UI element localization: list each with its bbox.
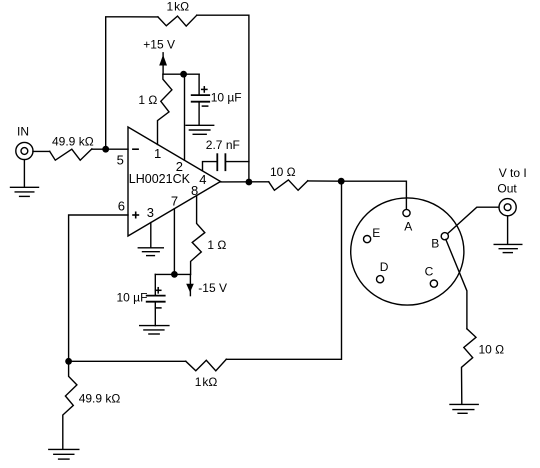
svg-text:IN: IN	[17, 124, 29, 138]
wire: pin B to output jack	[448, 207, 499, 233]
wire: IN jack to input resistor	[33, 150, 50, 152]
wire: +15V rail	[163, 73, 199, 75]
op-amp plus sign	[133, 212, 138, 217]
svg-text:Out: Out	[497, 181, 517, 195]
wire: 10 Ohm to junction	[308, 180, 341, 182]
capacitor 10 uF (+15V bypass)	[192, 74, 210, 125]
svg-text:2: 2	[176, 159, 183, 174]
svg-text:1 kΩ: 1 kΩ	[167, 0, 190, 13]
svg-text:49.9 kΩ: 49.9 kΩ	[52, 135, 94, 149]
ground (divider)	[49, 449, 79, 459]
ground (output jack)	[494, 244, 522, 252]
+15 V supply arrow	[159, 53, 167, 74]
-15 V supply arrow	[186, 274, 194, 295]
svg-text:49.9 kΩ: 49.9 kΩ	[79, 391, 121, 405]
wire: pin 7 down to -15V node	[173, 209, 175, 275]
resistor 49.9 kOhm (input)	[50, 149, 92, 160]
wire: feedback loop left/top	[106, 17, 158, 149]
wire: pin B down to sense resistor	[446, 239, 467, 328]
svg-text:B: B	[431, 236, 439, 250]
svg-text:V to I: V to I	[499, 166, 527, 180]
wire: pin 3 to ground	[150, 223, 152, 248]
wire: junction to pin A	[341, 181, 406, 209]
op-amp minus sign	[133, 148, 138, 150]
wire: resistor to inverting input	[92, 148, 128, 150]
pin B	[441, 233, 448, 240]
resistor 1 kOhm (feedback)	[158, 15, 197, 26]
ground (+15V bypass)	[186, 125, 214, 134]
svg-text:C: C	[425, 265, 434, 279]
svg-text:4: 4	[199, 172, 206, 187]
svg-text:E: E	[372, 226, 380, 240]
pin A	[403, 209, 410, 216]
svg-text:10 µF: 10 µF	[117, 291, 148, 305]
connector J2 V-to-I Out	[499, 199, 516, 216]
capacitor 10 uF (-15V bypass)	[147, 274, 165, 325]
pin E	[364, 236, 371, 243]
ground (sense resistor)	[450, 404, 478, 413]
svg-text:3: 3	[147, 205, 154, 220]
svg-text:10 µF: 10 µF	[211, 90, 242, 104]
resistor 10 Ohm (output)	[269, 180, 308, 190]
svg-text:1 Ω: 1 Ω	[207, 238, 226, 252]
svg-text:5: 5	[117, 153, 124, 168]
svg-text:1 kΩ: 1 kΩ	[195, 375, 218, 389]
svg-text:10 Ω: 10 Ω	[270, 165, 296, 179]
svg-text:10 Ω: 10 Ω	[479, 343, 505, 357]
node: output loop junction	[338, 178, 345, 185]
resistor 1 kOhm (bottom feedback)	[186, 359, 227, 371]
node: output junction	[246, 179, 253, 186]
svg-text:1 Ω: 1 Ω	[138, 93, 157, 107]
wire: -15V rail	[155, 273, 190, 275]
pin D	[377, 276, 384, 283]
wire: bottom loop left	[69, 360, 186, 362]
wire: op-amp output	[221, 181, 269, 183]
wire: IN jack to ground	[23, 160, 25, 188]
resistor 10 Ohm (sense)	[462, 329, 477, 404]
svg-text:6: 6	[118, 199, 125, 214]
wire: junction down to bottom feedback loop	[226, 181, 341, 359]
pin C	[430, 280, 437, 287]
svg-text:D: D	[380, 260, 389, 274]
node: +15V junction	[180, 71, 187, 78]
node: non-inverting divider junction	[65, 358, 72, 365]
wire: feedback loop top/right	[197, 15, 249, 182]
resistor 1 Ohm (pin 8)	[191, 196, 205, 274]
svg-text:LH0021CK: LH0021CK	[129, 172, 191, 186]
svg-text:7: 7	[171, 194, 178, 209]
ground (IN connector)	[11, 187, 39, 196]
connector J1 IN	[16, 142, 33, 159]
node: inverting input junction	[102, 146, 109, 153]
resistor 1 Ohm (pin 1 current limit)	[158, 74, 172, 144]
capacitor 2.7 nF (compensation)	[203, 154, 249, 170]
wire: pin 2 to +15V junction	[184, 74, 186, 160]
wire: output jack to ground	[507, 216, 509, 244]
svg-text:-15 V: -15 V	[198, 281, 227, 295]
ground (pin 3)	[138, 248, 163, 256]
svg-text:1: 1	[154, 146, 161, 161]
svg-text:+15 V: +15 V	[143, 37, 175, 51]
svg-text:A: A	[404, 219, 412, 233]
resistor 49.9 kOhm (divider to ground)	[63, 361, 77, 449]
wire: pin 6 to divider junction	[69, 215, 128, 361]
op-amp U1 LH0021CK	[128, 127, 221, 236]
svg-text:2.7 nF: 2.7 nF	[206, 138, 240, 152]
connector shell (TO-3 can, bottom view)	[351, 198, 464, 305]
ground (-15V bypass)	[140, 326, 169, 334]
node: -15V junction	[171, 271, 178, 278]
